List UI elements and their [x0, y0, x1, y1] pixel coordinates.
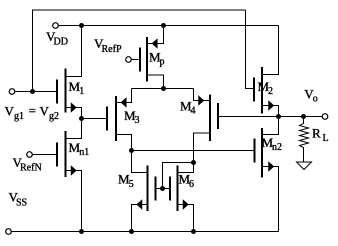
Mn1 channel bar [65, 131, 67, 177]
M6 drain lead to M4 drain node [178, 163, 194, 173]
resistor RL [300, 117, 309, 162]
M3 source lead to node B [116, 89, 132, 103]
Mn2 source arrow [269, 162, 274, 170]
Mp gate bar [139, 48, 141, 72]
M4 source lead from node B [194, 89, 211, 101]
node VSS M6 source [191, 229, 196, 234]
node M3 drain M5 drain [129, 148, 134, 153]
node VSS Mn1 source [79, 229, 84, 234]
Mn1 source lead to VSS rail [66, 171, 82, 232]
wire top loop input to M2 gate [33, 10, 246, 92]
M6 gate bar [169, 177, 171, 201]
Mp drain lead to node B [147, 75, 164, 89]
M5 channel bar [147, 166, 149, 212]
terminal VSS [6, 229, 12, 235]
transistor Mp [140, 26, 164, 89]
svg-text:R: R [312, 126, 321, 141]
node VSS M5 source [129, 229, 134, 234]
svg-text:L: L [323, 133, 329, 144]
svg-text:3: 3 [135, 115, 140, 126]
svg-text:p: p [160, 57, 165, 68]
svg-text:g1: g1 [14, 111, 24, 122]
node RL tap [301, 114, 306, 119]
svg-text:1: 1 [79, 86, 84, 97]
M3 source arrow [121, 98, 126, 106]
M4 channel bar [209, 95, 211, 142]
M3 gate bar [106, 107, 108, 131]
M2 channel bar [261, 67, 263, 114]
wire M5 M6 gate tie [157, 188, 170, 190]
Mn1 source arrow [71, 166, 76, 174]
transistor M6 [170, 163, 194, 232]
svg-text:V: V [40, 104, 50, 119]
svg-text:4: 4 [191, 106, 196, 117]
transistor M5 [132, 151, 156, 232]
svg-text:=: = [29, 103, 36, 118]
Mn2 gate bar [254, 139, 256, 163]
M6 source lead to VSS rail [178, 205, 194, 232]
M1 gate bar [56, 80, 58, 104]
M1 source lead to node A [66, 108, 82, 119]
wire M4 gate to output node [219, 116, 322, 118]
node VDD M1 drain [79, 23, 84, 28]
Mn1 gate bar [56, 143, 58, 167]
M2 source lead to output node [262, 106, 279, 117]
Mn2 source lead to VSS rail [262, 167, 279, 232]
transistor M4 [194, 89, 219, 163]
Mp source arrow [152, 39, 157, 47]
wire node A to M3 gate [82, 118, 107, 120]
Mp channel bar [146, 37, 148, 82]
svg-text:SS: SS [16, 198, 27, 209]
transistor Mn2 [255, 117, 279, 232]
wire Mn2 gate net [132, 150, 254, 152]
svg-text:n2: n2 [272, 142, 282, 153]
terminal VDD [53, 23, 59, 29]
M3 drain lead to Mn2 gate net [116, 135, 132, 151]
svg-text:2: 2 [268, 86, 273, 97]
svg-text:RefN: RefN [20, 163, 42, 174]
ground [297, 162, 312, 170]
svg-text:DD: DD [54, 37, 68, 48]
transistor Mn1 [57, 119, 82, 232]
M4 source arrow [199, 96, 204, 104]
M6 channel bar [177, 166, 179, 212]
Mn2 drain lead to output node [262, 117, 279, 135]
transistor M1 [57, 26, 82, 119]
svg-text:V: V [5, 104, 15, 119]
M6 source arrow [183, 200, 188, 208]
terminal VRefN [27, 152, 56, 158]
M1 channel bar [65, 69, 67, 113]
Mn2 channel bar [261, 128, 263, 178]
Mn1 drain lead to node A [66, 119, 82, 139]
wire VDD rail [58, 25, 279, 27]
transistor M3 [107, 89, 132, 151]
node output [276, 114, 281, 119]
node A M1 source Mn1 drain [79, 116, 84, 121]
M5 gate bar [155, 177, 157, 201]
node VDD Mp source [161, 23, 166, 28]
node M5 M6 gate tie [160, 186, 165, 191]
node B Mp drain [161, 86, 166, 91]
transistor M2 [246, 10, 279, 117]
wire class-AB gates riser [163, 163, 194, 189]
M4 gate bar [217, 103, 219, 129]
svg-text:6: 6 [189, 179, 194, 190]
M5 source arrow [137, 200, 142, 208]
wire input lead [15, 91, 56, 93]
svg-text:g2: g2 [49, 111, 59, 122]
svg-text:5: 5 [129, 179, 134, 190]
terminal input [9, 89, 15, 95]
wire VSS rail [11, 231, 278, 233]
node M4 drain M6 drain [191, 160, 196, 165]
terminal Vo [322, 114, 328, 120]
M5 source lead to VSS rail [132, 205, 148, 232]
Mp source lead to VDD rail [147, 26, 164, 44]
M2 source arrow [269, 101, 274, 109]
terminal VRefP [126, 57, 139, 63]
svg-text:o: o [313, 94, 318, 105]
M2 gate wire from top loop [246, 10, 254, 89]
M2 drain lead to VDD rail [262, 26, 279, 75]
M1 source arrow [71, 103, 76, 111]
svg-text:n1: n1 [79, 147, 89, 158]
M4 drain lead to M6 drain node [194, 133, 211, 163]
svg-text:RefP: RefP [102, 44, 122, 55]
M1 drain lead to VDD rail [66, 26, 82, 77]
node input junction [30, 89, 35, 94]
M2 gate bar [253, 78, 255, 102]
wire node B (M3/M4 sources, Mp drain) [132, 88, 194, 90]
M3 channel bar [115, 96, 117, 141]
M5 drain lead to Mn2 gate net [132, 151, 148, 173]
